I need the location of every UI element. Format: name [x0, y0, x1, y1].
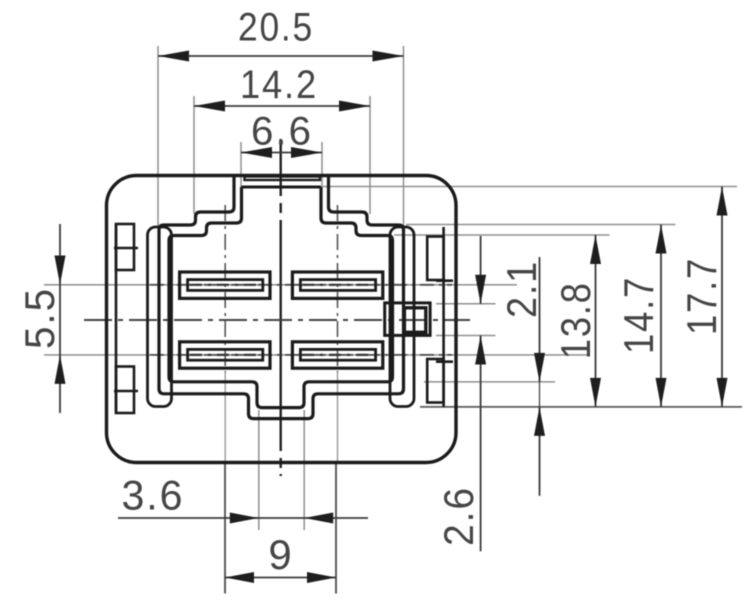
svg-text:14.7: 14.7	[615, 276, 662, 354]
svg-text:17.7: 17.7	[678, 257, 725, 335]
svg-text:2.6: 2.6	[435, 486, 482, 546]
svg-text:2.1: 2.1	[498, 260, 545, 318]
svg-text:13.8: 13.8	[552, 281, 599, 359]
svg-text:6.6: 6.6	[251, 110, 313, 154]
svg-text:20.5: 20.5	[238, 5, 314, 49]
svg-text:14.2: 14.2	[240, 63, 318, 107]
svg-text:5.5: 5.5	[16, 287, 63, 349]
svg-text:9: 9	[268, 531, 293, 578]
svg-text:3.6: 3.6	[122, 472, 185, 519]
